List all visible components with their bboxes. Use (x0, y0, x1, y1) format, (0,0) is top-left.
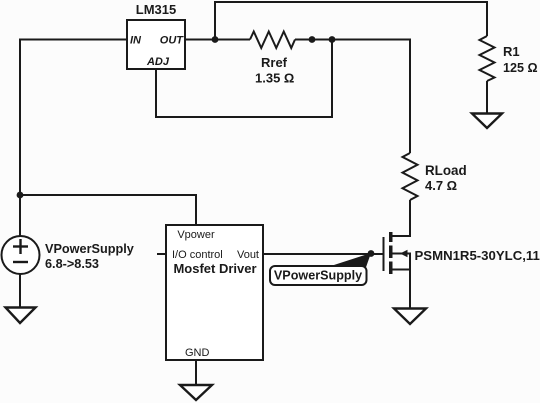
svg-text:VPowerSupply: VPowerSupply (274, 269, 362, 283)
svg-text:OUT: OUT (160, 35, 185, 47)
svg-text:Vout: Vout (237, 249, 259, 261)
svg-text:I/O control: I/O control (172, 249, 223, 261)
svg-text:ADJ: ADJ (146, 56, 170, 68)
svg-text:VPowerSupply: VPowerSupply (45, 242, 134, 256)
svg-text:LM315: LM315 (136, 2, 176, 17)
svg-text:Vpower: Vpower (177, 229, 215, 241)
svg-text:Mosfet Driver: Mosfet Driver (173, 261, 256, 276)
svg-text:125 Ω: 125 Ω (503, 61, 538, 75)
svg-text:GND: GND (185, 347, 210, 359)
svg-text:6.8->8.53: 6.8->8.53 (45, 257, 99, 271)
svg-text:R1: R1 (503, 44, 520, 59)
svg-text:Rref: Rref (261, 55, 288, 70)
svg-text:RLoad: RLoad (425, 163, 467, 178)
svg-text:PSMN1R5-30YLC,115: PSMN1R5-30YLC,115 (415, 248, 540, 263)
svg-text:IN: IN (130, 35, 142, 47)
svg-text:1.35 Ω: 1.35 Ω (255, 71, 294, 86)
svg-text:4.7 Ω: 4.7 Ω (425, 178, 457, 193)
